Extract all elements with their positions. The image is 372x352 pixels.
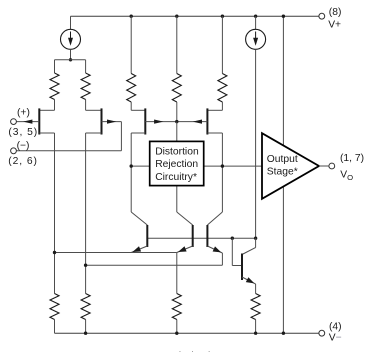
wire V- bottom rail: [55, 332, 319, 334]
node rail bottom G: [282, 332, 285, 335]
node rail bottom B: [84, 332, 87, 335]
wire Q4a lower lead: [207, 132, 222, 134]
wire column A: [54, 133, 56, 294]
transistor Q6: [177, 225, 193, 253]
transistor Q3: [145, 108, 177, 134]
svg-text:(4): (4): [329, 321, 342, 332]
node gate junction: [175, 120, 178, 123]
wire Q6 emitter down: [176, 253, 178, 294]
svg-text:(8): (8): [329, 7, 342, 18]
transistor Q6 collector: [177, 212, 193, 225]
terminal (+) input: [11, 119, 17, 125]
transistor Q8: [242, 254, 256, 285]
svg-text:(3, 5): (3, 5): [8, 127, 38, 138]
node rail F: [254, 15, 257, 18]
resistor R2: [81, 60, 90, 111]
resistor R9: [251, 294, 260, 334]
resistor R5: [218, 16, 227, 110]
transistor Q8 base wire: [231, 238, 233, 265]
svg-text:Rejection: Rejection: [155, 159, 198, 170]
transistor Q4a: [177, 108, 208, 134]
wire rail to R4: [175, 15, 178, 18]
resistor R3: [127, 16, 136, 110]
current source I2: [246, 29, 266, 49]
op-amp output stage U2: [262, 133, 319, 199]
wire V+ to V- right branch: [282, 16, 284, 333]
terminal V- pin 4: [319, 330, 325, 336]
svg-text:V+: V+: [328, 20, 341, 31]
wire column E mid: [221, 133, 223, 212]
terminal V+ pin 8: [319, 13, 325, 19]
wire R2 to Q2 drain: [86, 109, 102, 111]
wire I1 to tail node: [70, 49, 72, 60]
node base bus I2: [254, 237, 257, 240]
wire Q7 emitter down: [221, 253, 223, 265]
svg-text:(1, 7): (1, 7): [340, 153, 364, 164]
wire gate node to box: [176, 122, 178, 142]
wire R1 to Q1 drain: [39, 109, 54, 111]
wire box to output stage: [204, 165, 262, 167]
wire box to node line left: [131, 165, 150, 167]
wire rail to current source I2: [255, 16, 257, 29]
wire column C mid: [130, 133, 132, 212]
svg-text:(2, 6): (2, 6): [8, 156, 38, 167]
transistor Q2 input (-): [102, 108, 122, 134]
wire column B: [85, 133, 87, 294]
wire emitter line Q7 to B: [86, 264, 223, 266]
node C junction: [130, 164, 133, 167]
resistor R4: [172, 16, 181, 121]
transistor Q5 collector: [131, 212, 147, 225]
node E junction: [221, 164, 224, 167]
resistor R1: [50, 60, 59, 111]
transistor Q7: [207, 225, 222, 253]
transistor Q5: [131, 225, 147, 253]
node emitter B: [84, 264, 87, 267]
wire Q2 source down: [86, 132, 102, 134]
svg-text:Stage*: Stage*: [267, 167, 298, 178]
svg-text:(−): (−): [17, 141, 30, 152]
transistor Q1 input (+): [16, 108, 39, 134]
wire I2 down to base bus: [255, 49, 257, 238]
wire rail to current source I1: [70, 16, 72, 29]
wire R3 to Q3: [131, 109, 145, 111]
resistor R6: [50, 294, 59, 334]
wire Q1 source down: [39, 132, 54, 134]
current source I1: [61, 29, 81, 49]
wire Q3 lower lead: [131, 132, 145, 134]
svg-text:Circuitry*: Circuitry*: [155, 172, 197, 183]
wire box bottom down: [176, 186, 178, 212]
node rail G: [282, 15, 285, 18]
resistor R8: [172, 294, 181, 334]
svg-text:V−: V−: [329, 332, 342, 343]
node base bus Q8: [231, 237, 234, 240]
wire emitter line Q5 Q6: [55, 252, 177, 254]
distortion rejection circuitry box U1: [150, 141, 204, 185]
svg-text:Output: Output: [267, 154, 298, 165]
wire base bus: [147, 237, 255, 239]
node tail junction: [69, 58, 72, 61]
node emitter A: [53, 251, 56, 254]
wire R5 to Q4a: [207, 109, 222, 111]
svg-text:Distortion: Distortion: [155, 146, 199, 157]
wire tail split bar: [55, 59, 86, 61]
wire rail to R3: [130, 15, 133, 18]
wire Q2 gate riser: [120, 122, 122, 151]
svg-text:(+): (+): [17, 108, 30, 119]
terminal (-) input: [11, 148, 17, 154]
transistor Q8 collector wire: [255, 238, 257, 247]
wire V+ top rail: [71, 15, 319, 17]
wire (-) input line: [16, 150, 121, 152]
wire Q8 emitter to R9: [255, 284, 257, 294]
resistor R7: [81, 294, 90, 334]
transistor Q7 collector: [207, 212, 222, 225]
wire output: [319, 165, 329, 167]
node rail bottom D: [175, 332, 178, 335]
wire rail to R5: [221, 15, 224, 18]
node rail bottom F: [254, 332, 257, 335]
svg-text:VO: VO: [340, 170, 353, 182]
terminal VO pins 1,7: [329, 163, 335, 169]
